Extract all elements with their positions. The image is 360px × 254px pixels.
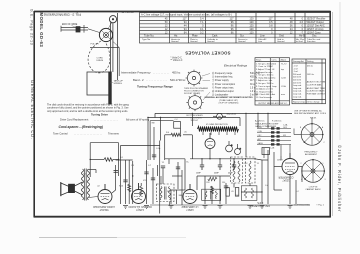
trimmer box C3 xyxy=(262,148,270,155)
svg-text:OSC: OSC xyxy=(244,163,249,165)
svg-text:C-1A: C-1A xyxy=(156,147,161,150)
svg-text:Fig. 3 - Dial Mechanisms: Fig. 3 - Dial Mechanisms xyxy=(43,13,81,17)
svg-text:Line: Line xyxy=(260,35,265,38)
svg-text:1615: 1615 xyxy=(283,127,287,129)
svg-text:Plate: Plate xyxy=(192,35,198,38)
svg-text:T-2: T-2 xyxy=(162,162,165,164)
svg-text:12SA7: 12SA7 xyxy=(282,179,290,182)
tube socket diagram upper xyxy=(186,70,203,87)
tube socket diagram lower xyxy=(186,94,203,111)
tone control row xyxy=(53,132,120,136)
svg-text:. . . . . . . . . . . . . . .: . . . . . . . . . . . . . . . . . xyxy=(94,118,118,121)
svg-text:Loop rad.: Loop rad. xyxy=(293,87,302,90)
svg-text:47 OHMS PER SECTION: 47 OHMS PER SECTION xyxy=(206,124,228,126)
wires converter xyxy=(274,152,302,204)
svg-text:Grid: Grid xyxy=(279,35,284,38)
capacitor C8 xyxy=(151,178,155,180)
svg-text:C2-B FOR MAX: C2-B FOR MAX xyxy=(307,83,322,86)
svg-text:Steps: Steps xyxy=(256,59,261,62)
oscillator coil box T5 xyxy=(241,186,257,201)
svg-text:12. Check 600 kc: 12. Check 600 kc xyxy=(256,94,272,96)
svg-text:to Gnd: to Gnd xyxy=(296,40,303,43)
fold shadow bottom xyxy=(39,237,117,239)
svg-text:GANG: GANG xyxy=(258,142,264,145)
svg-text:TAKE-UP: TAKE-UP xyxy=(114,80,124,83)
svg-text:OSC: OSC xyxy=(235,195,240,197)
svg-text:C-4: C-4 xyxy=(265,185,268,187)
svg-text:540-1730 kc: 540-1730 kc xyxy=(170,78,186,82)
output transformer T3 xyxy=(75,169,97,201)
gang rung labels xyxy=(258,127,288,145)
svg-text:. . . . . . . . . . . . . .: . . . . . . . . . . . . . . xyxy=(146,78,167,82)
table header band (bottom, flipped page) xyxy=(142,38,321,43)
svg-text:SOCKET VOLTAGES: SOCKET VOLTAGES xyxy=(185,50,231,55)
dial plate rectangle xyxy=(87,72,110,95)
table note line above xyxy=(141,13,232,17)
svg-text:MODEL GD-63: MODEL GD-63 xyxy=(39,13,44,48)
svg-text:Drive Cord Replacement: Drive Cord Replacement xyxy=(60,117,89,121)
spider terminal dots xyxy=(304,123,326,180)
socket voltages table xyxy=(140,13,331,43)
svg-text:Htr.: Htr. xyxy=(174,35,178,38)
tube V1 12SA7 converter xyxy=(282,153,298,175)
svg-text:2. Conn. to 12SA7: 2. Conn. to 12SA7 xyxy=(256,65,274,68)
svg-text:max: max xyxy=(281,94,285,96)
svg-text:200 mmf: 200 mmf xyxy=(293,77,301,79)
svg-text:T-3: T-3 xyxy=(83,174,86,176)
svg-text:* Volts D-C: * Volts D-C xyxy=(171,56,183,59)
svg-text:12SA7: 12SA7 xyxy=(277,159,283,162)
electrolytic C21 xyxy=(235,144,242,155)
svg-text:R-6: R-6 xyxy=(207,182,210,184)
svg-text:0.2: 0.2 xyxy=(200,31,204,34)
speaker SP1 xyxy=(61,182,75,196)
dial frame vertical rails xyxy=(110,13,117,80)
svg-text:Setting: Setting xyxy=(307,60,313,63)
electrolytic C20 xyxy=(226,141,233,152)
resistor R9 xyxy=(104,158,113,162)
svg-text:SIMULATED “ROCKER”: SIMULATED “ROCKER” xyxy=(255,123,279,126)
svg-text:9. Tune in signal: 9. Tune in signal xyxy=(256,86,271,88)
page border frame xyxy=(34,11,331,218)
svg-text:ADJUST ANT TRIM: ADJUST ANT TRIM xyxy=(307,87,325,90)
svg-text:CONVERTER: CONVERTER xyxy=(278,176,293,179)
svg-text:SEE REPLACEMENT ANT. COILS: SEE REPLACEMENT ANT. COILS xyxy=(294,112,327,115)
svg-text:ALIGNMENT: ALIGNMENT xyxy=(305,153,318,156)
capacitor C22 xyxy=(152,155,156,157)
cord pulley to idler xyxy=(108,23,112,29)
svg-text:VOL: VOL xyxy=(143,180,147,182)
heater tap ticks xyxy=(203,132,235,136)
capacitor C17 xyxy=(218,165,222,170)
coupling wires V4 grid xyxy=(112,160,129,204)
svg-text:3: 3 xyxy=(325,179,326,181)
svg-text:455: 455 xyxy=(283,135,286,137)
capacitor C15 xyxy=(123,180,127,182)
svg-text:A-125 DC: A-125 DC xyxy=(255,120,265,123)
A-125 DC note xyxy=(255,120,282,129)
svg-text:Ground: Ground xyxy=(238,40,246,43)
svg-text:END OF WIRE: END OF WIRE xyxy=(62,24,78,26)
svg-text:6d turns of W spring: 6d turns of W spring xyxy=(126,117,150,121)
svg-text:.05: .05 xyxy=(184,132,187,134)
IF transformer T4 output can xyxy=(202,189,221,200)
svg-text:C2-B: C2-B xyxy=(281,77,286,79)
tube V3 12SQ7 det-avc xyxy=(132,183,146,204)
svg-text:200 mmf: 200 mmf xyxy=(293,74,301,76)
svg-text:.05: .05 xyxy=(231,191,234,193)
dashed cord loop xyxy=(88,41,110,73)
svg-text:Htr-B: Htr-B xyxy=(299,35,305,38)
svg-text:C-2: C-2 xyxy=(175,119,178,121)
svg-text:11. Repeat 8 to 10: 11. Repeat 8 to 10 xyxy=(256,90,274,93)
svg-text:Ground: Ground xyxy=(277,40,285,43)
electrical ratings rows xyxy=(212,71,260,97)
schematic tiny value labels xyxy=(83,119,299,197)
svg-text:1. Set gen. 455 kc: 1. Set gen. 455 kc xyxy=(256,62,273,65)
page edge shadow right xyxy=(332,12,334,216)
resistor R13 box style xyxy=(226,188,229,197)
gang trimmer capacitor cluster xyxy=(271,127,280,145)
audio B+ rail wire xyxy=(90,143,118,177)
resistor R7 xyxy=(210,186,213,194)
svg-text:A-C line voltage 117, no signa: A-C line voltage 117, no signal input. V… xyxy=(141,13,232,17)
svg-text:OUTPUT METER ACROSS V.C.: OUTPUT METER ACROSS V.C. xyxy=(258,102,288,105)
svg-text:** Volts A-C: ** Volts A-C xyxy=(171,59,183,62)
volume control R2 wiring xyxy=(116,141,160,214)
pointer slider block xyxy=(76,26,81,32)
svg-text:50L6GT: 50L6GT xyxy=(99,208,109,211)
svg-text:C-2A: C-2A xyxy=(283,124,288,127)
svg-text:Ground: Ground xyxy=(207,40,215,43)
svg-text:R.E.M.: R.E.M. xyxy=(310,118,317,120)
svg-text:Type No.: Type No. xyxy=(142,39,151,41)
on-off switch box S1 xyxy=(174,122,181,129)
svg-text:G.E. Page 22-13: G.E. Page 22-13 xyxy=(30,9,34,46)
switch wire rail xyxy=(150,121,192,160)
svg-text:(TOP OF CHASSIS): (TOP OF CHASSIS) xyxy=(219,102,239,105)
junction dots xyxy=(90,113,269,193)
svg-text:C-2B: C-2B xyxy=(270,148,275,150)
capacitor C16 xyxy=(200,165,204,170)
svg-text:4: 4 xyxy=(301,179,302,181)
svg-text:Function: Function xyxy=(307,40,316,43)
osc coil dashed box T1a xyxy=(231,157,243,183)
svg-text:T1-T2: T1-T2 xyxy=(281,63,287,65)
svg-text:12SK7: 12SK7 xyxy=(186,208,194,211)
drive cord row xyxy=(60,117,150,121)
svg-text:R-4: R-4 xyxy=(166,132,169,134)
tuning frequency range rows xyxy=(133,78,186,89)
alignment chart left block xyxy=(255,58,290,105)
spider pin labels xyxy=(300,126,326,181)
ground G6 xyxy=(288,206,293,209)
osc coil dashed box T1b xyxy=(246,157,256,183)
ground G2 xyxy=(144,206,149,209)
svg-text:GENERAL ELECTRIC CO.: GENERAL ELECTRIC CO. xyxy=(30,80,35,139)
dark edge bar of dial plate xyxy=(108,72,111,105)
capacitor C19 xyxy=(224,186,228,188)
svg-text:SW: SW xyxy=(152,123,155,125)
resistor R14 box style xyxy=(235,188,239,197)
svg-text:Tube No.: Tube No. xyxy=(144,35,154,38)
svg-text:455 kc: 455 kc xyxy=(307,66,313,68)
svg-text:Dummy Ant.: Dummy Ant. xyxy=(293,60,305,63)
ground G1 xyxy=(123,206,128,209)
svg-text:1: 1 xyxy=(323,163,324,165)
power section bus xyxy=(190,135,256,165)
IF transformer T2 dashed box xyxy=(157,176,175,205)
capacitor C18 xyxy=(232,165,236,170)
svg-text:Band - 2: Band - 2 xyxy=(133,78,144,82)
table cell data rows xyxy=(144,18,326,38)
svg-text:455 kc: 455 kc xyxy=(172,71,181,75)
svg-text:USE OF NEW EXTERNAL AC: USE OF NEW EXTERNAL AC xyxy=(294,109,322,112)
svg-text:C2-A: C2-A xyxy=(281,85,286,88)
svg-text:. . . . . . . . . . . . . . .: . . . . . . . . . . . . . . . . . . . . xyxy=(74,133,102,136)
dial pointer assembly xyxy=(61,25,88,33)
svg-text:6. Gang fully open: 6. Gang fully open xyxy=(256,77,273,79)
svg-text:Loop rad.: Loop rad. xyxy=(293,84,302,87)
wires osc section xyxy=(234,150,268,204)
top idler pulley xyxy=(109,16,116,23)
loop antenna L2 spider lower xyxy=(302,160,325,183)
svg-text:13. Seal trimmers: 13. Seal trimmers xyxy=(256,96,272,99)
svg-text:10. Adjust ant. trim: 10. Adjust ant. trim xyxy=(256,88,273,91)
svg-text:12SQ7: 12SQ7 xyxy=(136,208,144,211)
gang trimmer ladder rungs xyxy=(257,129,291,159)
svg-text:Grid: Grid xyxy=(272,62,276,65)
tube V4 50L6GT output xyxy=(89,184,113,204)
ground G3 xyxy=(203,206,208,209)
resistor R6 xyxy=(208,177,217,181)
svg-text:C2-A ROCK GANG: C2-A ROCK GANG xyxy=(307,90,325,93)
svg-text:Adjust: Adjust xyxy=(281,59,287,62)
resistor R10 xyxy=(128,184,131,192)
svg-text:40MF: 40MF xyxy=(214,173,220,175)
svg-text:Tuning Frequency Range: Tuning Frequency Range xyxy=(137,85,173,89)
svg-text:.1 mf: .1 mf xyxy=(293,66,298,68)
svg-text:Ground: Ground xyxy=(190,40,198,43)
svg-text:.02: .02 xyxy=(97,186,100,188)
svg-text:I-F AMPLIFIER: I-F AMPLIFIER xyxy=(181,205,198,208)
svg-text:5. Set gen. 1615 kc: 5. Set gen. 1615 kc xyxy=(256,74,274,77)
svg-text:200 mmf: 200 mmf xyxy=(293,80,301,82)
svg-text:Tuning Drive: Tuning Drive xyxy=(91,112,108,116)
svg-text:GENERAL ALIGNMENT INFORMATION: GENERAL ALIGNMENT INFORMATION NOTES xyxy=(204,96,253,99)
svg-text:Repeat steps until no change: Repeat steps until no change xyxy=(293,101,320,104)
svg-text:©John F. Rider, Publisher: ©John F. Rider, Publisher xyxy=(337,145,342,213)
svg-text:Intermediate Frequency: Intermediate Frequency xyxy=(121,71,151,75)
svg-text:150: 150 xyxy=(222,182,225,184)
svg-text:Cord-spacer—(Restringing): Cord-spacer—(Restringing) xyxy=(59,125,104,129)
ground G5 xyxy=(248,206,253,209)
svg-text:10 TURNS: 10 TURNS xyxy=(122,11,134,14)
IF stage vertical wires xyxy=(158,162,183,205)
svg-text:DRUM: DRUM xyxy=(97,60,104,62)
pilot lamp L40 xyxy=(213,113,226,119)
svg-text:Tone Control: Tone Control xyxy=(53,132,68,136)
cord from pulley to pointer xyxy=(88,29,100,33)
wires mid section xyxy=(165,159,230,204)
svg-text:Cath.: Cath. xyxy=(212,35,218,38)
svg-text:Electrical Ratings: Electrical Ratings xyxy=(224,64,248,68)
svg-text:7. Adjust osc. trim: 7. Adjust osc. trim xyxy=(256,79,272,82)
svg-text:MAZDA 40: MAZDA 40 xyxy=(227,113,238,116)
loop antenna L1 spider upper xyxy=(301,124,323,146)
svg-text:AUDIO AMPLIFIER: AUDIO AMPLIFIER xyxy=(93,205,115,208)
svg-text:C-7: C-7 xyxy=(148,165,151,167)
main cord drum pulley xyxy=(99,28,112,41)
svg-text:8. Set gen. 1500 kc: 8. Set gen. 1500 kc xyxy=(256,82,274,85)
dial glass perspective lines xyxy=(90,42,119,77)
svg-text:ADJUST OSC TRIM: ADJUST OSC TRIM xyxy=(307,81,326,84)
svg-text:.1 mf: .1 mf xyxy=(293,68,298,70)
capacitor C7 xyxy=(144,172,148,174)
svg-text:PULLEY: PULLEY xyxy=(91,44,100,46)
svg-text:35Z5GT: 35Z5GT xyxy=(191,120,199,122)
ground G4 xyxy=(218,206,223,209)
capacitor C14 xyxy=(114,171,119,173)
svg-text:2: 2 xyxy=(301,163,302,165)
intermediate frequency row xyxy=(121,71,181,75)
socket leader lines xyxy=(202,74,210,101)
svg-text:Osc: Osc xyxy=(312,35,317,38)
svg-text:40MF: 40MF xyxy=(228,173,234,175)
note top right text xyxy=(294,109,327,119)
svg-text:Conn.: Conn. xyxy=(272,60,278,62)
alignment chart right block xyxy=(292,59,326,104)
svg-text:CABINET BACK: CABINET BACK xyxy=(305,188,321,191)
svg-text:only approved cord, and tie wi: only approved cord, and tie with a doubl… xyxy=(47,110,128,113)
ground G8 xyxy=(260,206,265,209)
svg-text:30 w: 30 w xyxy=(250,84,255,86)
svg-text:Ant: Ant xyxy=(272,93,276,96)
rectifier tube V5 xyxy=(205,133,215,149)
svg-text:120: 120 xyxy=(249,31,254,34)
extra mid wires xyxy=(150,159,310,205)
svg-text:Loop rad.: Loop rad. xyxy=(293,90,302,93)
svg-text:C-9: C-9 xyxy=(131,165,134,167)
svg-text:4. Repeat for max.: 4. Repeat for max. xyxy=(256,71,273,74)
svg-text:Loop rad.: Loop rad. xyxy=(293,95,302,98)
svg-text:SOCKET (REAR): SOCKET (REAR) xyxy=(184,92,201,95)
spider connector wires xyxy=(294,118,312,172)
capacitor C10 xyxy=(161,166,165,168)
middle text column: paragraph xyxy=(47,104,129,113)
svg-text:T-1: T-1 xyxy=(257,163,260,165)
ground G7 xyxy=(169,206,174,209)
svg-text:R-1: R-1 xyxy=(120,157,123,159)
svg-text:Osc: Osc xyxy=(272,77,276,79)
resistor R12 xyxy=(171,133,181,136)
svg-text:L-2: L-2 xyxy=(296,191,299,193)
svg-text:Scr.: Scr. xyxy=(240,35,245,38)
ballast heater string coil R8 xyxy=(198,126,239,131)
svg-text:Ground: Ground xyxy=(171,40,179,43)
svg-text:SPRING: SPRING xyxy=(114,83,123,85)
svg-text:1615 kc: 1615 kc xyxy=(307,74,314,76)
svg-text:Loop rad.: Loop rad. xyxy=(293,93,302,96)
svg-text:Trimmers: Trimmers xyxy=(108,132,120,136)
svg-text:F-245 DC: F-245 DC xyxy=(272,121,282,123)
svg-text:200 mmf: 200 mmf xyxy=(293,82,301,84)
top tier rail wires xyxy=(148,113,292,160)
svg-text:20MF: 20MF xyxy=(196,173,202,175)
resistor R3 volume xyxy=(140,186,143,196)
capacitor C11 xyxy=(176,167,180,169)
svg-text:3. Adjust T2 trim.: 3. Adjust T2 trim. xyxy=(256,68,272,71)
svg-text:R-10: R-10 xyxy=(119,186,123,188)
svg-text:FOR MAX OUTPUT: FOR MAX OUTPUT xyxy=(307,92,326,95)
general alignment caption block xyxy=(204,96,253,104)
svg-text:.1 mf: .1 mf xyxy=(293,71,298,73)
tube V2 12SK7 IF amp xyxy=(183,184,197,204)
svg-text:. . . . . . . . . . .: . . . . . . . . . . . xyxy=(153,71,170,75)
svg-text:L.P.S.: L.P.S. xyxy=(256,201,263,204)
